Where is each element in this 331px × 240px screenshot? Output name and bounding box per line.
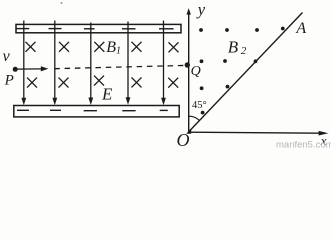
svg-text:E: E bbox=[101, 85, 113, 104]
svg-text:B1: B1 bbox=[106, 39, 121, 57]
svg-text:manfen5.com: manfen5.com bbox=[276, 139, 331, 148]
svg-text:O: O bbox=[177, 130, 190, 148]
svg-text:45°: 45° bbox=[192, 100, 207, 111]
svg-text:y: y bbox=[196, 0, 206, 19]
svg-text:v: v bbox=[3, 48, 11, 65]
svg-text:Q: Q bbox=[191, 64, 201, 79]
svg-text:B2: B2 bbox=[228, 37, 247, 57]
svg-text:P: P bbox=[4, 73, 14, 89]
svg-text:A: A bbox=[295, 20, 306, 37]
